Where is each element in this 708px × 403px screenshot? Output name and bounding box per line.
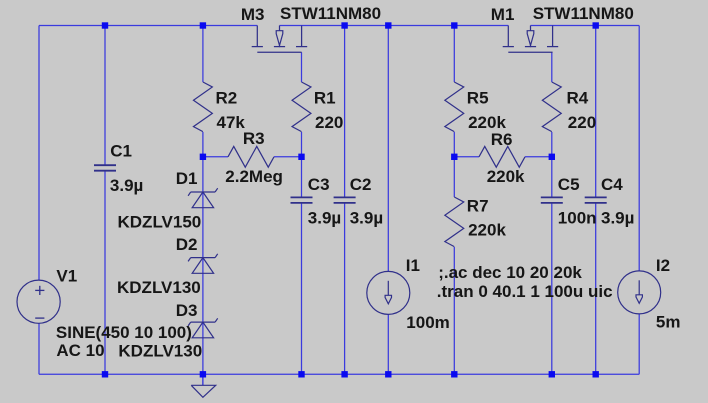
svg-text:R5: R5 (467, 89, 489, 108)
svg-text:KDZLV150: KDZLV150 (118, 213, 202, 232)
svg-text:3.9µ: 3.9µ (110, 176, 143, 195)
svg-text:C3: C3 (308, 175, 330, 194)
svg-text:100n: 100n (558, 209, 597, 228)
svg-text:3.9µ: 3.9µ (350, 209, 383, 228)
svg-text:M1: M1 (491, 5, 515, 24)
svg-text:220: 220 (315, 113, 343, 132)
svg-text:220k: 220k (487, 167, 525, 186)
svg-text:R6: R6 (491, 130, 513, 149)
svg-text:STW11NM80: STW11NM80 (280, 4, 381, 23)
svg-text:100m: 100m (406, 313, 449, 332)
svg-text:2.2Meg: 2.2Meg (225, 167, 283, 186)
svg-text:AC 10: AC 10 (56, 341, 104, 360)
svg-text:R1: R1 (314, 89, 336, 108)
svg-text:;.ac dec 10 20 20k: ;.ac dec 10 20 20k (438, 263, 582, 282)
svg-text:C5: C5 (558, 175, 580, 194)
svg-text:47k: 47k (217, 113, 246, 132)
svg-text:D3: D3 (176, 301, 198, 320)
svg-text:I2: I2 (656, 256, 670, 275)
svg-text:R2: R2 (216, 89, 238, 108)
svg-text:KDZLV130: KDZLV130 (117, 278, 201, 297)
svg-text:R7: R7 (467, 196, 489, 215)
svg-text:220: 220 (568, 113, 596, 132)
svg-text:M3: M3 (241, 5, 265, 24)
svg-text:C4: C4 (601, 175, 623, 194)
svg-text:SINE(450 10 100): SINE(450 10 100) (56, 323, 192, 342)
svg-text:220k: 220k (468, 220, 506, 239)
svg-text:.tran 0 40.1 1 100u uic: .tran 0 40.1 1 100u uic (437, 282, 613, 301)
svg-text:STW11NM80: STW11NM80 (533, 4, 634, 23)
svg-text:C1: C1 (110, 142, 132, 161)
svg-text:D1: D1 (176, 169, 198, 188)
svg-text:3.9µ: 3.9µ (308, 209, 341, 228)
svg-text:3.9µ: 3.9µ (601, 209, 634, 228)
svg-text:I1: I1 (406, 256, 420, 275)
svg-text:KDZLV130: KDZLV130 (118, 341, 202, 360)
svg-text:R4: R4 (567, 89, 589, 108)
svg-text:R3: R3 (243, 129, 265, 148)
svg-text:220k: 220k (468, 113, 506, 132)
svg-text:5m: 5m (656, 313, 681, 332)
svg-text:D2: D2 (176, 235, 198, 254)
svg-text:V1: V1 (56, 266, 77, 285)
svg-text:C2: C2 (350, 175, 372, 194)
